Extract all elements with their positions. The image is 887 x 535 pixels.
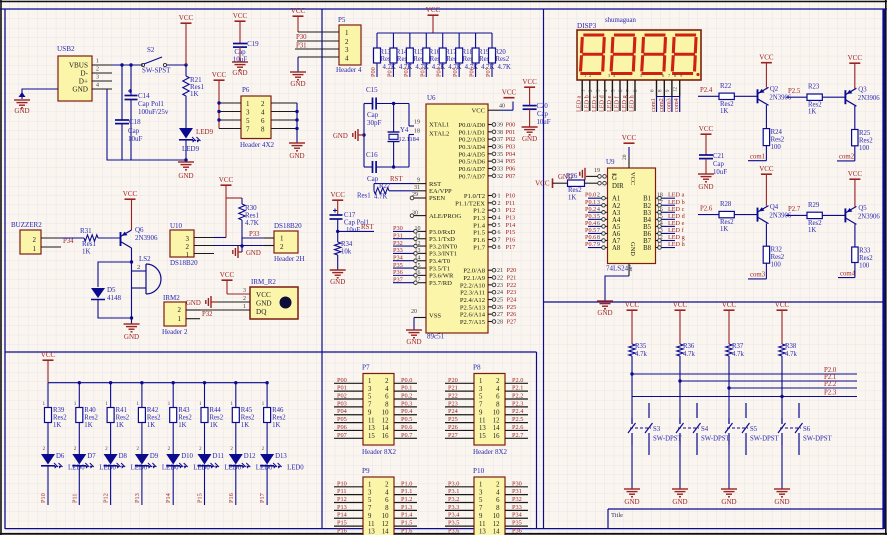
- power VCC above U10: [219, 176, 234, 238]
- svg-text:12: 12: [382, 417, 389, 424]
- svg-text:7: 7: [479, 505, 483, 512]
- net label RST at U6 pin9: [390, 176, 403, 183]
- svg-text:B7: B7: [643, 238, 652, 245]
- svg-text:P21: P21: [507, 275, 517, 282]
- connector USB2: [57, 45, 92, 101]
- ground GND below U6: [406, 330, 422, 346]
- svg-text:R26: R26: [566, 173, 578, 180]
- header P5 Header 4: [336, 16, 362, 74]
- IRM_R2 pin numbers: [243, 288, 246, 310]
- wire D8 to net P1.2: [110, 466, 112, 505]
- svg-text:Cap: Cap: [128, 127, 140, 135]
- transistor Q2 2N3906: [758, 86, 792, 106]
- svg-text:P13: P13: [134, 493, 141, 503]
- svg-text:P0.6: P0.6: [585, 234, 596, 241]
- resistor R13 Res2 4.7K: [374, 33, 396, 77]
- svg-text:D9: D9: [150, 453, 159, 460]
- svg-text:VCC: VCC: [759, 54, 774, 62]
- svg-text:3: 3: [186, 235, 190, 243]
- svg-text:LED b: LED b: [583, 95, 590, 112]
- svg-text:7: 7: [597, 228, 600, 234]
- svg-text:2N3906: 2N3906: [858, 213, 881, 220]
- net label P30 at P5: [296, 34, 307, 41]
- svg-text:EA/VPP: EA/VPP: [429, 188, 452, 195]
- wire switch to VCC node: [167, 63, 188, 66]
- svg-text:7: 7: [368, 402, 372, 409]
- svg-text:A8: A8: [612, 245, 621, 252]
- svg-text:9: 9: [479, 409, 483, 416]
- DISP3 common pins com1-com4: [650, 80, 680, 112]
- wire bus P2.2: [727, 386, 857, 389]
- svg-text:P07: P07: [485, 67, 492, 77]
- svg-text:GND: GND: [522, 135, 537, 143]
- svg-text:GND: GND: [597, 309, 612, 317]
- resistor R15 Res2 4.7K: [406, 33, 428, 77]
- svg-text:Header 4: Header 4: [336, 66, 362, 74]
- svg-text:P03: P03: [506, 143, 516, 150]
- svg-text:P0.5: P0.5: [585, 227, 596, 234]
- wire bus P2.1: [678, 379, 857, 382]
- svg-text:100uF/25v: 100uF/25v: [138, 108, 169, 116]
- svg-text:Header 2H: Header 2H: [274, 255, 305, 263]
- P10 left pin wires: [445, 480, 474, 534]
- IRM_R2 pin stubs: [200, 302, 250, 310]
- net label P2.6: [700, 205, 713, 212]
- svg-text:P32: P32: [512, 496, 522, 503]
- svg-text:P2.0: P2.0: [512, 377, 523, 384]
- wire S3 to ground: [631, 445, 633, 489]
- svg-text:Q6: Q6: [135, 226, 144, 234]
- wire R42 to D9: [141, 423, 143, 455]
- svg-text:29: 29: [412, 192, 418, 198]
- svg-text:6: 6: [261, 117, 265, 125]
- LED D9: [135, 453, 179, 472]
- switch S3 SW-DPST: [628, 403, 683, 455]
- svg-text:GND: GND: [721, 498, 736, 506]
- wire stub at com1: [748, 160, 766, 162]
- svg-text:13: 13: [368, 529, 375, 535]
- wire key column 4: [781, 356, 783, 424]
- svg-text:com1: com1: [650, 98, 657, 112]
- svg-text:VCC: VCC: [775, 301, 790, 309]
- header IRM2 Header 2: [162, 294, 200, 336]
- svg-text:20: 20: [622, 154, 628, 160]
- header P10 Header 8X2: [473, 467, 505, 535]
- svg-text:13: 13: [479, 529, 486, 535]
- LED D11: [198, 453, 242, 472]
- resistor R38 4.7k: [779, 343, 798, 358]
- svg-text:12: 12: [657, 235, 663, 241]
- wire Q4 collector to R32: [765, 223, 767, 246]
- svg-text:R37: R37: [732, 343, 744, 350]
- svg-text:Res2: Res2: [496, 56, 510, 63]
- header DS18B20 Header 2H: [264, 222, 305, 263]
- svg-text:16: 16: [415, 270, 421, 276]
- svg-text:LED c: LED c: [591, 95, 598, 112]
- wire bottom ground rail: [107, 89, 186, 160]
- svg-text:P2.1: P2.1: [824, 374, 836, 381]
- svg-text:SW-DPST: SW-DPST: [701, 436, 731, 443]
- svg-text:LS2: LS2: [139, 255, 151, 263]
- svg-text:1K: 1K: [272, 422, 280, 429]
- svg-text:P1.4: P1.4: [401, 512, 413, 519]
- svg-text:11: 11: [479, 417, 486, 424]
- svg-text:P00: P00: [370, 67, 377, 77]
- svg-text:1: 1: [178, 315, 182, 323]
- svg-text:VCC: VCC: [179, 14, 194, 22]
- svg-text:com2: com2: [839, 154, 855, 161]
- microcontroller U6 89c51: [426, 94, 488, 341]
- svg-text:DIR: DIR: [612, 183, 624, 190]
- svg-text:XTAL2: XTAL2: [429, 131, 449, 138]
- svg-text:C20: C20: [537, 103, 549, 110]
- svg-text:P15: P15: [506, 229, 516, 236]
- svg-text:100: 100: [859, 145, 870, 152]
- wire resistor network rail: [377, 32, 492, 34]
- ground GND below LS2 circuit: [124, 324, 140, 341]
- svg-text:P04: P04: [436, 66, 443, 77]
- svg-text:U6: U6: [427, 94, 436, 102]
- junction LED rail col 6: [203, 381, 206, 384]
- svg-text:P9: P9: [362, 467, 370, 475]
- net label P05 at resistor network: [452, 67, 459, 77]
- svg-text:1: 1: [479, 378, 482, 385]
- svg-text:1K: 1K: [53, 422, 61, 429]
- svg-text:R27: R27: [379, 183, 391, 190]
- svg-text:P5: P5: [338, 16, 346, 24]
- svg-text:LED h: LED h: [629, 94, 636, 112]
- svg-text:P20: P20: [448, 377, 458, 384]
- power VCC key column 2: [673, 301, 688, 344]
- svg-text:P27: P27: [507, 319, 517, 326]
- LED D10: [166, 453, 210, 472]
- power VCC above Q6: [123, 190, 138, 230]
- svg-text:100: 100: [771, 144, 782, 151]
- power VCC at U6 pin40: [502, 89, 517, 98]
- svg-text:1K: 1K: [178, 422, 186, 429]
- svg-text:com3: com3: [750, 272, 766, 279]
- section divider vertical x=536 (bottom-middle right edge): [536, 352, 538, 529]
- svg-text:P3.7/RD: P3.7/RD: [429, 280, 452, 287]
- svg-text:2: 2: [33, 236, 37, 244]
- capacitor C16 Cap: [366, 151, 379, 183]
- net label P02 at resistor network: [403, 67, 410, 77]
- svg-text:10uF: 10uF: [537, 119, 551, 126]
- svg-text:P2.6/A14: P2.6/A14: [460, 312, 486, 319]
- svg-text:VCC: VCC: [622, 134, 637, 142]
- svg-text:SW-DPST: SW-DPST: [803, 436, 833, 443]
- svg-text:VCC: VCC: [256, 291, 271, 299]
- svg-text:7: 7: [479, 402, 483, 409]
- svg-text:S3: S3: [653, 426, 661, 433]
- resistor R40 Res2 1K: [74, 383, 99, 452]
- power VCC above P6: [212, 71, 227, 129]
- transistor Q4 2N3906: [758, 204, 792, 224]
- svg-text:3: 3: [368, 386, 372, 393]
- svg-text:P0.6: P0.6: [401, 424, 412, 431]
- svg-text:VCC: VCC: [123, 190, 138, 198]
- LED LED9: [179, 128, 214, 153]
- svg-text:P27: P27: [448, 432, 458, 439]
- svg-text:3: 3: [368, 489, 372, 496]
- svg-text:11: 11: [368, 521, 375, 528]
- svg-text:P10: P10: [40, 493, 47, 503]
- svg-text:R36: R36: [683, 343, 695, 350]
- svg-text:P01: P01: [337, 385, 347, 392]
- svg-text:GND: GND: [124, 333, 139, 341]
- svg-text:DS18B20: DS18B20: [274, 222, 302, 230]
- svg-text:VCC: VCC: [848, 54, 863, 62]
- svg-text:3: 3: [479, 386, 483, 393]
- svg-text:10uF: 10uF: [346, 227, 360, 234]
- net label P33: [249, 231, 260, 238]
- svg-text:15: 15: [479, 433, 486, 440]
- svg-text:P0.0/AD0: P0.0/AD0: [458, 122, 485, 129]
- ground sideways at U10: [233, 246, 261, 258]
- resistor R14 Res2 4.7K: [390, 33, 412, 77]
- wire R22 to Q2 base: [734, 95, 757, 97]
- svg-text:R41: R41: [116, 407, 127, 414]
- svg-text:SW-DPST: SW-DPST: [653, 436, 683, 443]
- svg-text:P16: P16: [337, 527, 347, 534]
- svg-text:G: G: [612, 175, 617, 182]
- svg-text:B5: B5: [643, 224, 652, 231]
- svg-text:P10: P10: [506, 193, 516, 200]
- net label P2.7: [788, 206, 801, 213]
- wire P2.4 to R22: [698, 95, 719, 97]
- wire USB2 left to ground: [19, 89, 59, 99]
- resistor R21 1K: [183, 65, 205, 98]
- svg-text:P1.7: P1.7: [473, 244, 486, 251]
- svg-text:7: 7: [498, 237, 501, 243]
- svg-text:P3.0/RxD: P3.0/RxD: [429, 229, 455, 236]
- svg-text:A7: A7: [612, 238, 621, 245]
- svg-text:P36: P36: [393, 269, 403, 276]
- net label P07 at resistor network: [485, 67, 492, 77]
- LED D8: [104, 453, 148, 472]
- power VCC above Q5: [848, 170, 863, 207]
- svg-text:1: 1: [33, 245, 37, 253]
- LED D6: [41, 453, 85, 472]
- svg-text:C14: C14: [138, 92, 150, 100]
- transistor Q3 2N3906: [845, 87, 880, 107]
- svg-text:P03: P03: [419, 67, 426, 77]
- svg-text:14: 14: [382, 425, 389, 432]
- svg-text:7: 7: [246, 126, 250, 134]
- svg-text:P2.4/A12: P2.4/A12: [460, 297, 485, 304]
- svg-text:GND: GND: [290, 80, 305, 88]
- svg-text:LED e: LED e: [606, 95, 613, 112]
- svg-text:P3.1/TxD: P3.1/TxD: [429, 236, 455, 243]
- svg-text:P1.5: P1.5: [401, 520, 412, 527]
- svg-text:2N3906: 2N3906: [769, 213, 792, 220]
- svg-text:1: 1: [368, 482, 371, 489]
- svg-text:R45: R45: [241, 407, 253, 414]
- svg-text:Y4: Y4: [400, 127, 409, 134]
- svg-text:D11: D11: [213, 453, 224, 460]
- U10 pins: [194, 238, 214, 254]
- U6 pins RST/EA/PSEN/ALE numbers: [410, 178, 426, 218]
- power VCC above U9: [622, 134, 637, 143]
- USB2 pins 1-4: [92, 59, 112, 90]
- svg-text:P2.1: P2.1: [512, 385, 523, 392]
- svg-text:P14: P14: [165, 492, 172, 503]
- svg-text:R38: R38: [785, 343, 797, 350]
- resistor R31 Res1 1K: [80, 227, 98, 256]
- svg-text:P0.7: P0.7: [585, 241, 596, 248]
- svg-text:VSS: VSS: [429, 313, 441, 320]
- svg-text:1K: 1K: [190, 90, 199, 98]
- svg-text:P02: P02: [403, 67, 410, 77]
- P7 left pin wires: [334, 377, 363, 439]
- power VCC above Q2: [759, 54, 774, 88]
- svg-text:U9: U9: [606, 158, 615, 166]
- svg-text:P33: P33: [512, 504, 522, 511]
- P8 left pin wires: [445, 377, 474, 439]
- svg-text:P2.0/A8: P2.0/A8: [463, 268, 486, 275]
- svg-text:com4: com4: [840, 270, 856, 277]
- svg-text:P0.4: P0.4: [585, 220, 596, 227]
- resistor R32 Res2 100: [763, 246, 785, 279]
- resistor R27 Res1 4.7K: [357, 183, 414, 201]
- svg-text:5: 5: [246, 117, 250, 125]
- svg-text:GND: GND: [72, 86, 88, 94]
- svg-text:1K: 1K: [84, 422, 92, 429]
- svg-text:com4: com4: [673, 98, 680, 112]
- svg-text:P31: P31: [296, 43, 307, 50]
- svg-text:P0.2: P0.2: [401, 393, 412, 400]
- svg-text:4.7k: 4.7k: [732, 351, 744, 358]
- wire R21 to LED9: [185, 96, 187, 128]
- net label P2.5: [788, 88, 801, 95]
- section divider vertical x=543: [543, 9, 545, 529]
- svg-text:20: 20: [411, 309, 417, 315]
- svg-text:GND: GND: [672, 498, 687, 506]
- svg-text:Cap: Cap: [537, 111, 549, 118]
- svg-text:9: 9: [368, 409, 372, 416]
- svg-text:P1.6: P1.6: [401, 527, 412, 534]
- net label P00 at resistor network: [370, 67, 377, 77]
- wire RST to U6: [374, 183, 414, 185]
- wire stub at com2: [837, 160, 855, 162]
- svg-text:B3: B3: [643, 210, 652, 217]
- junction LED rail col 7: [234, 381, 237, 384]
- transistor Q6 2N3906: [121, 226, 159, 248]
- svg-text:P2.7: P2.7: [788, 206, 801, 213]
- svg-text:R33: R33: [859, 248, 871, 255]
- svg-text:8: 8: [385, 402, 389, 409]
- net label P34: [63, 238, 74, 245]
- svg-text:17: 17: [657, 200, 663, 206]
- svg-text:P14: P14: [337, 512, 348, 519]
- net label com2: [839, 154, 855, 161]
- svg-text:5: 5: [479, 497, 483, 504]
- svg-text:3: 3: [243, 288, 246, 294]
- svg-text:A1: A1: [612, 196, 620, 203]
- svg-text:22: 22: [497, 276, 503, 282]
- svg-text:S2: S2: [147, 46, 155, 54]
- svg-text:12: 12: [674, 87, 679, 93]
- title block: [608, 509, 884, 529]
- svg-text:P06: P06: [469, 67, 476, 77]
- svg-text:D8: D8: [119, 453, 128, 460]
- svg-text:LED d: LED d: [598, 94, 605, 112]
- svg-text:Cap Pol1: Cap Pol1: [138, 100, 164, 108]
- svg-text:14: 14: [493, 529, 500, 535]
- svg-text:LED a: LED a: [576, 95, 583, 112]
- svg-text:P0.4: P0.4: [401, 408, 413, 415]
- svg-text:2N3906: 2N3906: [135, 234, 158, 242]
- P9 left pin wires: [334, 480, 363, 534]
- svg-text:4.7K: 4.7K: [374, 194, 387, 201]
- svg-text:P17: P17: [259, 493, 266, 503]
- resistor R43 Res2 1K: [168, 383, 193, 452]
- resistor R26 Res2 1K at DIR: [566, 173, 606, 202]
- resistor R17 Res2 4.7K: [439, 33, 461, 77]
- svg-text:LED9: LED9: [196, 128, 214, 136]
- svg-text:10uF: 10uF: [713, 169, 727, 176]
- svg-text:U10: U10: [170, 222, 183, 230]
- svg-text:LED h: LED h: [668, 241, 686, 248]
- svg-text:P2.3: P2.3: [824, 390, 837, 397]
- svg-text:P26: P26: [448, 424, 458, 431]
- wire Q6 collector down: [130, 248, 133, 264]
- wire R30 to DQ node: [240, 220, 243, 248]
- svg-text:15: 15: [415, 263, 421, 269]
- svg-text:P7: P7: [362, 364, 370, 372]
- svg-text:P2.2/A10: P2.2/A10: [460, 282, 486, 289]
- wire Q6 collector to ground: [131, 262, 133, 324]
- net label P14: [165, 492, 172, 503]
- resistor R20 Res2 4.7K: [489, 33, 511, 77]
- svg-text:GND: GND: [14, 107, 29, 115]
- svg-text:R35: R35: [635, 343, 647, 350]
- net label P2.3: [824, 390, 837, 397]
- wire diode to bottom: [98, 299, 133, 320]
- svg-text:R22: R22: [720, 83, 732, 90]
- svg-text:P01: P01: [386, 67, 393, 77]
- svg-text:VCC: VCC: [212, 71, 227, 79]
- svg-text:P0.7/AD7: P0.7/AD7: [458, 173, 485, 180]
- wire bus P2.0: [630, 372, 857, 375]
- svg-text:Res2: Res2: [771, 254, 785, 261]
- svg-text:P24: P24: [507, 297, 518, 304]
- svg-text:LED g: LED g: [668, 234, 685, 241]
- wire R41 to D8: [110, 423, 112, 455]
- svg-text:VCC: VCC: [291, 7, 306, 15]
- power VCC LED rail: [41, 351, 56, 383]
- resistor R19 Res2 4.7K: [472, 33, 494, 77]
- svg-text:13: 13: [479, 425, 486, 432]
- resistor R16 Res2 4.7K: [423, 33, 445, 77]
- svg-text:P8: P8: [473, 364, 481, 372]
- buffer U9 74LS245: [606, 158, 656, 273]
- DISP3 inner pin number marks: [584, 73, 683, 78]
- header P6 Header 4X2: [240, 86, 275, 149]
- svg-text:P30: P30: [296, 34, 307, 41]
- ground GND below P6: [289, 143, 305, 160]
- wire D11 to net P1.5: [204, 466, 206, 505]
- svg-text:2: 2: [496, 378, 500, 385]
- svg-text:24: 24: [497, 290, 503, 296]
- svg-text:2: 2: [280, 243, 284, 251]
- svg-text:GND: GND: [186, 300, 201, 307]
- svg-text:Res2: Res2: [720, 219, 734, 226]
- resistor R25 Res2 100: [852, 130, 874, 161]
- svg-text:P02: P02: [337, 393, 347, 400]
- svg-text:14: 14: [382, 529, 389, 535]
- svg-text:S6: S6: [803, 426, 811, 433]
